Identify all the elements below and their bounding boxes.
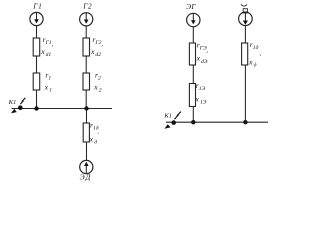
resistor r1d,xd (right) — [242, 43, 248, 65]
lightning arrow K1 (right) — [175, 112, 181, 120]
label r1d — [90, 120, 99, 135]
label r2 — [95, 70, 101, 81]
svg-text:Г1: Г1 — [32, 2, 42, 11]
label xdE — [196, 54, 208, 65]
svg-text:,: , — [260, 51, 262, 57]
fault point K1 dot (right) — [171, 120, 176, 125]
label xd — [89, 135, 98, 146]
wire G2 to R3 — [85, 26, 87, 38]
motor ED circle — [80, 160, 93, 173]
svg-text:Г2: Г2 — [82, 2, 92, 11]
svg-text:1: 1 — [49, 87, 52, 93]
label rG1 — [43, 35, 54, 48]
label xd2 — [90, 47, 101, 58]
bus 2 (right horizontal) — [166, 121, 268, 123]
svg-text:1: 1 — [48, 76, 51, 82]
label rG2 — [92, 35, 103, 48]
wire R4 to bus1 — [85, 90, 87, 109]
fault point K1 dot (left) — [18, 105, 23, 110]
svg-text:,: , — [206, 48, 208, 54]
svg-text:x: x — [44, 82, 49, 91]
svg-text:x: x — [248, 57, 253, 66]
resistor rGE,xdE — [189, 43, 195, 65]
motor ED arrow (up) — [84, 162, 89, 174]
svg-text:2: 2 — [99, 87, 102, 93]
label x1 — [44, 82, 53, 93]
equivalent generator EG circle — [187, 13, 200, 26]
wire r1d to bus2 — [244, 65, 246, 122]
label r1d right — [250, 40, 262, 57]
svg-text:1Э: 1Э — [199, 86, 206, 92]
wire R2 to bus1 — [36, 90, 38, 109]
motor D breve mark — [241, 4, 247, 6]
svg-text:x: x — [196, 54, 201, 63]
svg-text:,: , — [52, 42, 54, 48]
wire R3 to R4 — [85, 56, 87, 73]
label xd1 — [40, 47, 51, 58]
label xd right — [248, 57, 257, 68]
svg-text:x: x — [93, 82, 98, 91]
wire rGE to r1E — [192, 65, 194, 84]
wire r1E to bus2 — [192, 107, 194, 123]
svg-text:ЭД: ЭД — [80, 173, 92, 182]
svg-text:,: , — [101, 42, 103, 48]
label r1E — [196, 81, 206, 92]
arrowhead at bus1 left end — [11, 109, 17, 113]
svg-text:ЭГ: ЭГ — [186, 2, 196, 11]
svg-text:x: x — [89, 135, 94, 144]
svg-text:dЭ: dЭ — [201, 59, 208, 65]
svg-text:d1: d1 — [46, 52, 52, 58]
svg-text:К1: К1 — [8, 99, 17, 106]
label x2 — [93, 82, 102, 93]
wire motor resistor to motor — [86, 142, 88, 160]
wire bus1 to motor resistor — [86, 109, 88, 124]
resistor r1,x1 — [33, 73, 40, 90]
svg-text:d2: d2 — [95, 52, 101, 58]
generator G1 circle — [30, 12, 43, 25]
label x1E — [194, 95, 206, 106]
svg-text:1Э: 1Э — [200, 100, 207, 106]
svg-text:x: x — [194, 95, 199, 104]
wire G1 to R1 — [36, 26, 38, 38]
resistor rG2,xd2 — [83, 38, 90, 56]
label rGE — [197, 40, 209, 53]
resistor r1d,xd (motor branch) — [83, 123, 89, 142]
EG arrow — [191, 13, 196, 24]
generator G2 arrow — [84, 13, 89, 24]
wire EG to rGE — [192, 27, 194, 43]
motor D arrow — [243, 13, 248, 25]
label r1 — [45, 70, 51, 81]
resistor rG1,xd1 — [33, 38, 40, 56]
lightning arrow K1 (left) — [20, 98, 25, 104]
svg-text:2: 2 — [98, 76, 101, 82]
resistor r2,x2 — [83, 73, 90, 90]
svg-text:1д: 1д — [253, 44, 259, 51]
motor D small square mark — [243, 9, 247, 13]
svg-text:,: , — [97, 129, 99, 135]
svg-text:x: x — [40, 47, 45, 56]
bus 1 (left horizontal) — [12, 108, 113, 110]
motor D circle — [239, 12, 253, 26]
svg-text:x: x — [90, 47, 95, 56]
wire R1 to R2 — [36, 56, 38, 73]
svg-text:д: д — [94, 139, 97, 146]
node bus2-D — [243, 120, 247, 124]
svg-text:К1: К1 — [163, 112, 172, 119]
resistor r1E,x1E — [189, 84, 195, 107]
node bus2-EG — [191, 120, 195, 124]
node bus1-branch2 — [84, 106, 88, 110]
wire D to r1d — [244, 26, 246, 43]
svg-text:д: д — [254, 61, 257, 68]
node bus1-branch1 — [34, 106, 38, 110]
generator G1 arrow — [34, 12, 39, 23]
arrowhead at bus2 left end — [164, 124, 170, 129]
generator G2 circle — [80, 13, 93, 26]
